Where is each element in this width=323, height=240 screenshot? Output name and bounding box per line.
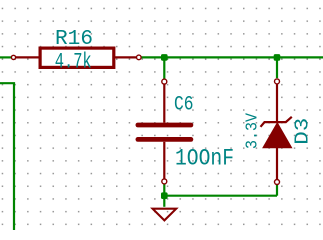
svg-text:3.3V: 3.3V bbox=[243, 112, 262, 149]
svg-text:R16: R16 bbox=[55, 28, 93, 51]
svg-text:D3: D3 bbox=[291, 118, 313, 145]
svg-text:1OOnF: 1OOnF bbox=[175, 146, 234, 172]
svg-text:4.7k: 4.7k bbox=[55, 49, 92, 75]
svg-text:C6: C6 bbox=[174, 94, 194, 117]
